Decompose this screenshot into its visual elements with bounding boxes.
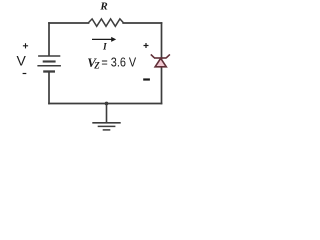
- svg-text:I: I: [102, 43, 107, 53]
- svg-text:R: R: [99, 1, 107, 13]
- svg-text:= 3.6 V: = 3.6 V: [101, 55, 136, 70]
- svg-text:Z: Z: [93, 61, 100, 71]
- svg-text:V: V: [17, 52, 27, 68]
